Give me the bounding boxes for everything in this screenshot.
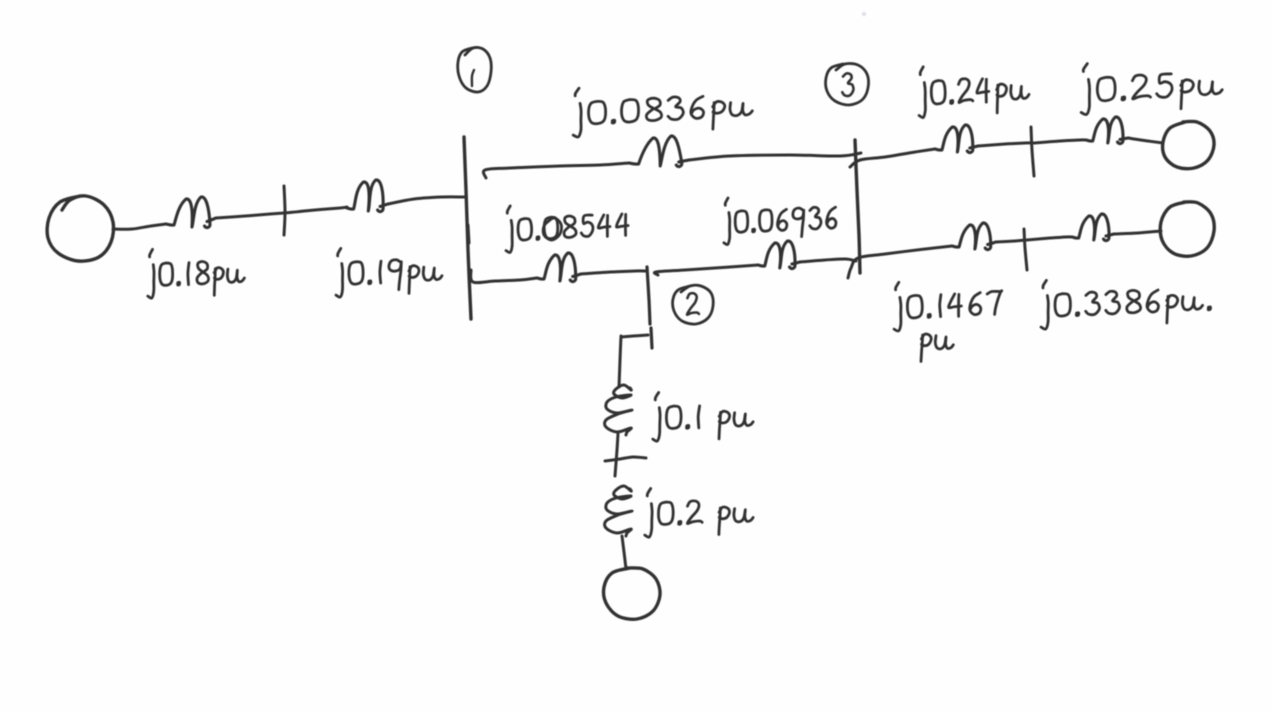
wire: G1 to reactance j0.18pu: [113, 224, 166, 229]
label j0.06936 (value): [724, 198, 836, 245]
wire: X j0.0836pu to bus 3: [689, 153, 861, 160]
wire: coil j0.2pu to motor M2: [622, 536, 626, 569]
reactance X j0.19pu (inductor): [347, 180, 388, 212]
generator G1 (left source circle): [47, 196, 113, 261]
bus 1 (vertical bus bar): [464, 137, 471, 319]
coil j0.1pu (cursive E winding): [605, 385, 632, 435]
node label: circled 3 above bus 3: [826, 64, 869, 105]
wire: X j0.08544 to node 2 tick: [581, 271, 646, 274]
wire: X j0.1467pu to tick: [996, 240, 1025, 242]
junction tick between j0.1467pu and j0.3386pu: [1024, 229, 1027, 270]
label j0.0836pu (top line value): [573, 88, 752, 137]
reactance X j0.1467pu (inductor): [952, 223, 996, 250]
motor M4 (bottom-right circle): [1160, 202, 1214, 256]
label j0.25pu: [1081, 64, 1222, 115]
label j0.1467: [894, 282, 1002, 331]
reactance X j0.18pu (inductor): [166, 197, 216, 228]
wire: bus 1 to X j0.08544 (middle line, with start hook): [471, 270, 537, 283]
label j0.3386pu.: [1041, 280, 1211, 329]
faint speck above bus 3: [862, 12, 866, 16]
coil j0.2pu (cursive E winding): [605, 486, 632, 536]
wire: X j0.06936 to bus 3: [800, 259, 856, 262]
cross tick between the two coils: [605, 457, 646, 461]
label j0.18pu: [148, 249, 245, 298]
wire: X j0.25pu to motor M3: [1128, 138, 1163, 143]
wire: tick to reactance j0.19pu: [285, 207, 347, 213]
overwrite loop on the 0 after the decimal in j0.08544: [543, 218, 561, 240]
wire: node 2 to X j0.06936: [654, 265, 758, 275]
node 2 tick (vertical): [647, 267, 652, 348]
wire: X j0.18pu to junction tick: [216, 213, 284, 218]
label j0.19pu: [336, 248, 442, 297]
wire: X j0.19pu to bus 1: [388, 197, 464, 204]
wire: bus 1 to line reactance j0.0836pu (top line, with start hook): [483, 163, 629, 178]
reactance X j0.25pu (inductor): [1086, 117, 1128, 144]
line reactance X j0.08544 (inductor): [537, 253, 581, 282]
junction tick between j0.18pu and j0.19pu: [284, 186, 285, 235]
reactance X j0.24pu (inductor): [935, 125, 978, 153]
label j0.08544 (value): [506, 206, 628, 253]
stub wire below node 2 (to transformer branch): [619, 335, 648, 387]
reactance X j0.3386pu (inductor): [1072, 214, 1114, 241]
label pu (second row of j0.1467pu): [921, 334, 953, 361]
wire: X j0.24pu to tick: [978, 143, 1032, 146]
wire: tick to X j0.25pu: [1034, 140, 1086, 143]
junction tick between j0.24pu and j0.25pu: [1031, 127, 1034, 176]
label j0.1 pu: [653, 393, 753, 442]
wire: bus 3 to X j0.1467pu (bottom-right, with start hook): [848, 246, 952, 278]
node label: circled 2 right of node 2: [673, 285, 714, 324]
node label: circled 1 above bus 1: [458, 47, 492, 92]
motor M2 (bottom circle): [604, 568, 661, 619]
wire: X j0.3386pu to motor M4: [1114, 231, 1161, 234]
wire: tick to X j0.3386pu: [1027, 237, 1072, 240]
wire: bus 3 to X j0.24pu (top-right, with start hook): [850, 149, 935, 167]
line reactance X j0.06936 (inductor): [758, 241, 800, 269]
bus 3 (vertical bus bar): [855, 140, 860, 273]
motor M3 (top-right circle): [1163, 121, 1214, 168]
label j0.24pu: [919, 67, 1029, 118]
line reactance X j0.0836pu (inductor): [629, 136, 689, 167]
wire: coil j0.1pu to cross tick: [615, 434, 618, 476]
label j0.2 pu: [645, 489, 753, 538]
